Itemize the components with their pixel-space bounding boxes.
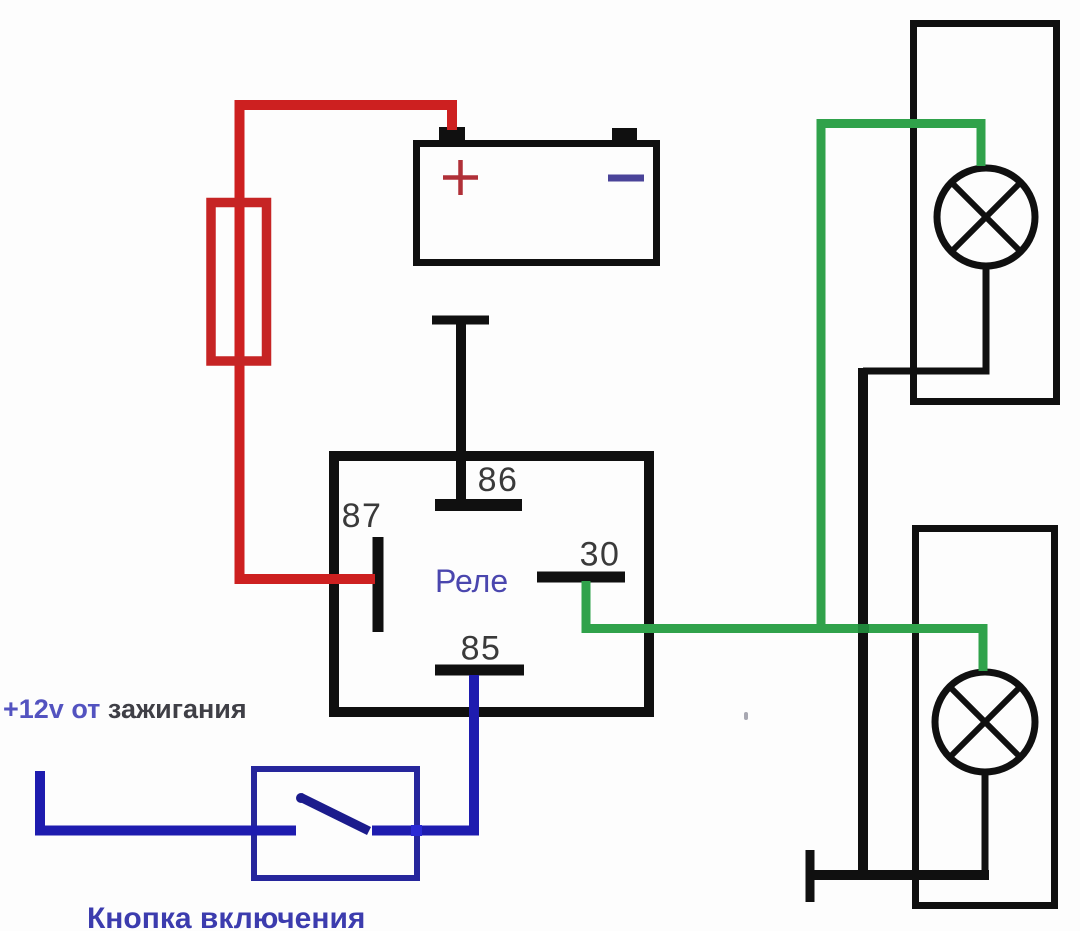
wire: green drop to lamp L2	[979, 624, 988, 671]
wire: battery + to fuse (red)	[240, 105, 453, 200]
wire: lamp L2 return to ground	[982, 770, 989, 875]
wire: lamp L1 return to ground	[863, 264, 986, 371]
svg-text:Реле: Реле	[435, 563, 508, 599]
svg-text:Кнопка включения: Кнопка включения	[87, 902, 365, 931]
lamp L1 housing	[914, 24, 1057, 402]
lamp L2 housing	[916, 529, 1055, 906]
node: green branch junction	[817, 123, 826, 624]
wire: fuse to relay pin 87 (red)	[240, 198, 376, 579]
svg-text:86: 86	[478, 461, 519, 499]
fuse F1	[211, 203, 267, 362]
wire: electrode to relay pin 86	[432, 316, 489, 503]
relay K1 body	[334, 456, 649, 712]
svg-text:85: 85	[461, 630, 502, 668]
battery terminal post +	[439, 127, 465, 142]
wire: switch to +12v stub (blue)	[40, 771, 296, 831]
wire: relay pin 85 to switch (blue)	[372, 675, 474, 831]
lamp L2 bulb	[935, 672, 1035, 772]
ground symbol	[806, 850, 815, 902]
battery GB1 body	[417, 144, 657, 263]
wire: ground bus vertical	[858, 368, 868, 875]
battery plus label	[443, 160, 478, 195]
battery minus label	[608, 175, 644, 182]
wire: green bus horizontal	[582, 624, 984, 633]
node: wire crossing switch box edge	[411, 825, 422, 836]
switch S1 blade	[296, 793, 369, 831]
relay pin 87 contact	[373, 537, 384, 632]
lamp L1 bulb	[937, 168, 1035, 266]
battery terminal post -	[612, 128, 637, 142]
svg-text:87: 87	[342, 497, 383, 535]
wire: relay pin 30 drop (green)	[582, 581, 591, 632]
relay pin 85 contact	[435, 665, 524, 676]
svg-text:+12v от зажигания: +12v от зажигания	[3, 694, 247, 724]
svg-text:30: 30	[580, 536, 621, 574]
relay pin 86 contact	[435, 499, 522, 511]
switch S1 box	[254, 769, 417, 878]
wire: green top horizontal to lamp L1	[817, 124, 982, 167]
relay pin 30 contact	[537, 572, 625, 583]
node: green crossing ground bus	[858, 624, 869, 633]
stray mark	[744, 712, 748, 720]
